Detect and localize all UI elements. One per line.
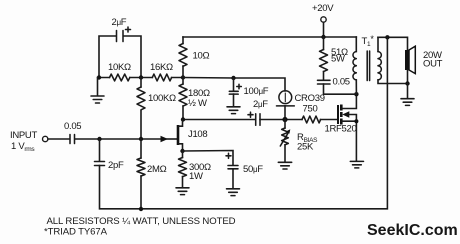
T1 secondary winding — [378, 52, 381, 80]
capacitor C6 2pF — [95, 139, 105, 166]
capacitor C7 50uF with ground — [226, 153, 240, 195]
svg-text:10Ω: 10Ω — [193, 51, 210, 62]
svg-text:J108: J108 — [188, 129, 207, 140]
svg-text:SeekIC.com: SeekIC.com — [367, 222, 458, 239]
node junction 10K/ground — [97, 75, 101, 79]
T1 secondary top leg — [377, 37, 379, 51]
Q1 source lead — [179, 144, 183, 151]
resistor R7 51ohm zigzag — [320, 50, 328, 72]
T1 secondary bottom leg — [378, 80, 408, 84]
transistor Q2 IRF520 MOSFET — [338, 94, 364, 168]
Q2 drain lead — [342, 94, 356, 108]
wire J108 drain node to IRF520 gate — [183, 119, 338, 121]
svg-text:0.05: 0.05 — [333, 77, 350, 88]
svg-text:ALL RESISTORS ¼ WATT, UNLESS N: ALL RESISTORS ¼ WATT, UNLESS NOTED — [47, 216, 236, 227]
svg-text:1 Vrms: 1 Vrms — [11, 141, 35, 153]
transformer T1 — [353, 37, 408, 94]
capacitor C3 2uF (coupling) — [248, 112, 260, 125]
capacitor C2 100uF with ground — [227, 78, 241, 114]
wire bias node to CRO39 top — [183, 78, 285, 92]
resistor R6 750 — [302, 116, 321, 123]
speaker LS1 20W with ground — [401, 46, 415, 105]
capacitor C5 0.05 (input coupling) — [70, 135, 75, 144]
wire feedback-loop left leg — [99, 36, 116, 78]
Q2 gate bar — [337, 105, 339, 124]
input terminal circle — [43, 136, 48, 141]
wire feedback-loop right leg — [124, 36, 142, 78]
wire bias row — [99, 77, 183, 79]
wire +20V rail — [183, 36, 356, 38]
svg-text:1W: 1W — [189, 171, 203, 182]
svg-text:25K: 25K — [297, 142, 314, 153]
svg-text:+20V: +20V — [312, 3, 334, 14]
capacitor C4 0.05 (snubber) — [318, 79, 331, 81]
svg-text:CRO39: CRO39 — [295, 93, 325, 104]
T1 primary bottom leg to drain node — [355, 80, 357, 94]
ground under 10K node — [91, 78, 104, 104]
power terminal +20V — [323, 23, 325, 38]
resistor R1 10K — [110, 74, 130, 81]
Q2 body arrow and source lead — [349, 115, 357, 122]
transistor Q1 J108 JFET — [161, 120, 183, 152]
potentiometer RBIAS 25K with ground — [278, 120, 291, 170]
resistor R3 100K — [140, 78, 142, 88]
current regulator D1 CRO39 — [277, 91, 295, 120]
svg-text:100μF: 100μF — [244, 86, 269, 97]
T1 core — [367, 51, 369, 81]
T1 primary top leg — [355, 37, 357, 52]
svg-text:1RF520: 1RF520 — [325, 124, 357, 135]
resistor R8 2M — [140, 139, 142, 158]
Q1 channel bar — [177, 125, 180, 145]
svg-text:50μF: 50μF — [243, 164, 263, 175]
capacitor C1 2uF (feedback) — [117, 27, 131, 42]
svg-text:0.05: 0.05 — [64, 121, 81, 132]
svg-text:*TRIAD TY67A: *TRIAD TY67A — [44, 227, 108, 238]
ground at Q2 source — [350, 161, 363, 168]
snubber branch: resistor R7 51ohm 5W in series with C4 — [318, 37, 357, 94]
resistor R9 300ohm 1W with ground — [182, 151, 184, 158]
svg-text:16KΩ: 16KΩ — [150, 62, 173, 73]
svg-text:2MΩ: 2MΩ — [147, 164, 167, 175]
Q1 gate arrow — [161, 136, 169, 142]
wire feedback line from secondary to input network — [100, 37, 388, 209]
T1 primary winding — [353, 52, 356, 80]
resistor R4 10ohm — [182, 37, 184, 44]
node Q1 source junction — [180, 149, 184, 153]
svg-text:INPUT: INPUT — [10, 130, 37, 141]
resistor R2 16K — [152, 74, 171, 81]
svg-text:½ W: ½ W — [188, 98, 207, 109]
svg-text:5W: 5W — [331, 54, 345, 65]
Q2 channel bar — [340, 105, 343, 125]
wire Q1 source to 50uF — [183, 151, 234, 166]
svg-text:2μF: 2μF — [253, 99, 268, 110]
svg-text:OUT: OUT — [423, 59, 443, 70]
Q1 drain lead — [179, 120, 183, 127]
svg-text:2μF: 2μF — [112, 17, 127, 28]
svg-text:750: 750 — [303, 104, 318, 115]
node junction 10K/16K/100K — [139, 75, 143, 79]
wire input row to J108 gate — [48, 138, 161, 140]
resistor R5 180ohm 1/2W — [182, 78, 184, 85]
wire T1 secondary to speaker with node — [378, 37, 408, 50]
svg-text:10KΩ: 10KΩ — [108, 62, 131, 73]
svg-text:T1*: T1* — [362, 34, 375, 48]
svg-text:2pF: 2pF — [108, 160, 124, 171]
svg-text:100KΩ: 100KΩ — [148, 93, 176, 104]
node junction 16K/10ohm/180ohm — [181, 75, 185, 79]
